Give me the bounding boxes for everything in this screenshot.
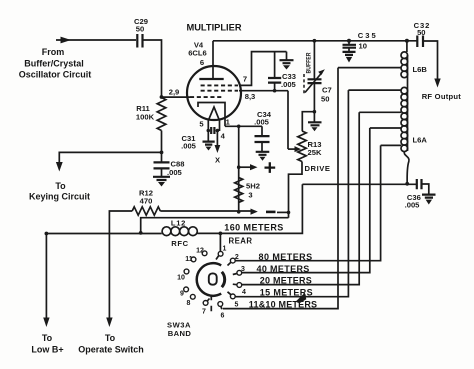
- svg-text:20 METERS: 20 METERS: [260, 276, 312, 286]
- ground for C34: [256, 152, 270, 155]
- tube V4 6CL6 envelope: [187, 66, 241, 120]
- junction 5H2 bottom: [237, 210, 241, 214]
- svg-text:L12: L12: [171, 219, 186, 228]
- wire rail to C7: [313, 39, 317, 43]
- cathode branch vertical: [238, 126, 240, 212]
- contact 10: [184, 269, 189, 274]
- capacitor C31: [207, 129, 211, 133]
- cathode: [198, 103, 225, 127]
- choke 5H2: [235, 178, 243, 203]
- svg-text:C7: C7: [322, 86, 332, 95]
- wire to keying circuit: [59, 152, 161, 163]
- 160m wire: [219, 232, 223, 236]
- svg-text:50: 50: [417, 28, 425, 37]
- svg-text:.005: .005: [254, 118, 270, 127]
- coil gap wire: [407, 77, 409, 88]
- capacitor C32: [417, 36, 423, 48]
- contact 6: [218, 302, 223, 307]
- grid row 2 (node 8,3): [201, 90, 238, 92]
- svg-text:.005: .005: [167, 168, 183, 177]
- svg-text:470: 470: [140, 197, 153, 206]
- svg-text:8,3: 8,3: [245, 92, 256, 101]
- svg-text:80 METERS: 80 METERS: [259, 252, 313, 262]
- svg-text:10: 10: [359, 42, 367, 51]
- capacitor C35: [347, 39, 351, 43]
- ground for C35: [343, 52, 356, 55]
- svg-text:Low B+: Low B+: [31, 345, 63, 355]
- svg-text:11&10 METERS: 11&10 METERS: [249, 300, 317, 310]
- node 2,9 junction: [160, 95, 164, 99]
- coil bottom wire: [404, 151, 409, 184]
- inductor L6A: [401, 87, 408, 94]
- contact 2: [230, 258, 235, 263]
- svg-text:Buffer/Crystal: Buffer/Crystal: [24, 59, 84, 69]
- svg-text:6CL6: 6CL6: [188, 49, 207, 58]
- contact 4: [237, 283, 242, 288]
- contact 9: [184, 287, 189, 292]
- 11&10 meters line: [223, 68, 338, 309]
- svg-text:2,9: 2,9: [169, 88, 180, 97]
- resistor R11: [157, 98, 166, 131]
- capacitor C29: [137, 34, 142, 48]
- low B+ line: [46, 233, 161, 235]
- switch shaft dashes: [210, 295, 212, 312]
- svg-text:1: 1: [223, 246, 227, 253]
- svg-text:160 METERS: 160 METERS: [224, 223, 284, 233]
- plus mark: [265, 162, 276, 173]
- svg-text:40 METERS: 40 METERS: [257, 264, 310, 274]
- svg-text:REAR: REAR: [228, 236, 252, 245]
- svg-text:RFC: RFC: [171, 239, 188, 248]
- meter + stub: [237, 165, 241, 169]
- svg-text:6: 6: [221, 313, 225, 320]
- wire pin1 / cathode circuit: [225, 125, 262, 127]
- svg-text:11: 11: [185, 256, 193, 263]
- test point X arrow: [216, 131, 218, 146]
- wire grid node to tube: [162, 96, 191, 98]
- plate: [199, 78, 223, 80]
- input wire from buffer: [56, 39, 136, 41]
- svg-text:L6B: L6B: [413, 65, 428, 74]
- B+ feed line: [141, 218, 289, 233]
- wiper arrow of R13: [288, 148, 295, 150]
- svg-text:5H2: 5H2: [246, 182, 260, 191]
- ground for C31: [207, 131, 209, 142]
- pin 6 wire: [212, 41, 214, 79]
- svg-text:10: 10: [177, 275, 185, 282]
- wire C7 to R13 top: [302, 112, 314, 131]
- input arrow: [61, 37, 72, 44]
- capacitor C36: [417, 179, 422, 189]
- svg-text:RF Output: RF Output: [422, 92, 462, 101]
- svg-text:9: 9: [180, 291, 184, 298]
- svg-text:.005: .005: [281, 80, 297, 89]
- svg-text:7: 7: [202, 309, 206, 316]
- wire R12 left to operate switch: [109, 211, 132, 319]
- 80 meters line: [235, 145, 380, 260]
- svg-text:5: 5: [235, 302, 239, 309]
- contact 12: [202, 251, 207, 256]
- potentiometer R13: [298, 131, 306, 162]
- svg-text:Oscillator Circuit: Oscillator Circuit: [19, 70, 92, 80]
- 40 meters line: [242, 128, 370, 273]
- coil bottom line: [405, 182, 409, 186]
- contact 7: [203, 301, 208, 306]
- minus mark: [266, 211, 276, 214]
- resistor R12: [132, 207, 160, 215]
- svg-text:BAND: BAND: [168, 329, 192, 338]
- svg-text:50: 50: [136, 25, 144, 34]
- svg-text:7: 7: [243, 75, 247, 84]
- rotary switch SW3A rotor: [197, 263, 221, 296]
- capacitor C88: [161, 152, 163, 162]
- 15 meters line: [235, 90, 348, 297]
- svg-text:3: 3: [248, 191, 252, 200]
- svg-text:To: To: [55, 181, 66, 191]
- svg-text:To: To: [105, 333, 116, 343]
- svg-text:C35: C35: [358, 31, 378, 40]
- svg-text:Operate Switch: Operate Switch: [78, 345, 144, 355]
- wire to low B+: [45, 234, 47, 319]
- svg-text:To: To: [42, 333, 53, 343]
- arrow to low B+: [43, 318, 49, 328]
- ground on screen branch: [286, 52, 288, 60]
- mech link dashes for C7: [303, 74, 305, 94]
- svg-text:X: X: [215, 156, 220, 165]
- ground for C7: [313, 112, 315, 122]
- contact 5: [230, 294, 235, 299]
- svg-text:12: 12: [196, 247, 204, 254]
- svg-text:From: From: [42, 47, 65, 57]
- arrow to operate switch: [106, 318, 112, 328]
- tap wires: [338, 67, 401, 69]
- ground for C36: [422, 195, 436, 198]
- junction C7 bottom: [313, 110, 317, 114]
- contact 8: [190, 294, 195, 299]
- bottom minus line: [160, 210, 250, 212]
- svg-text:50: 50: [321, 95, 329, 104]
- heater: [208, 107, 219, 131]
- capacitor C34: [261, 126, 263, 135]
- svg-text:25K: 25K: [308, 148, 322, 157]
- choke L12: [162, 227, 171, 236]
- svg-text:Keying Circuit: Keying Circuit: [29, 192, 90, 202]
- wire 8,3 to drive pot: [287, 91, 289, 149]
- wire R13 bottom loop: [289, 162, 303, 218]
- variable capacitor C7: [308, 79, 322, 83]
- svg-text:.005: .005: [181, 142, 197, 151]
- contact 3: [237, 270, 242, 275]
- arrow to keying circuit: [56, 162, 63, 172]
- svg-text:100K: 100K: [136, 113, 155, 122]
- grid row 1 (screen, pin 7): [201, 84, 238, 86]
- svg-text:MULTIPLIER: MULTIPLIER: [186, 23, 241, 33]
- capacitor C33: [274, 52, 276, 78]
- 20 meters line: [242, 112, 359, 284]
- node C88 junction: [160, 151, 164, 155]
- svg-text:BUFFER: BUFFER: [305, 52, 312, 73]
- svg-text:4: 4: [242, 289, 246, 296]
- svg-text:DRIVE: DRIVE: [305, 164, 331, 173]
- svg-text:8: 8: [187, 300, 191, 307]
- ground for C88: [153, 177, 170, 180]
- inductor L6B: [405, 39, 409, 43]
- svg-text:.005: .005: [405, 201, 421, 210]
- top rail: [213, 40, 417, 42]
- svg-text:6: 6: [200, 58, 204, 67]
- contact 1: [219, 233, 221, 251]
- wire C29 to grid node: [143, 40, 162, 97]
- grid row 3 (control grid 2,9): [190, 96, 223, 98]
- ink blot artifact: [296, 293, 307, 303]
- wire C32 to RF output: [423, 41, 438, 80]
- svg-text:L6A: L6A: [413, 136, 428, 145]
- contact 11: [191, 257, 196, 262]
- wire R11 to C88 node: [161, 131, 163, 153]
- junction C33/8,3: [273, 89, 277, 93]
